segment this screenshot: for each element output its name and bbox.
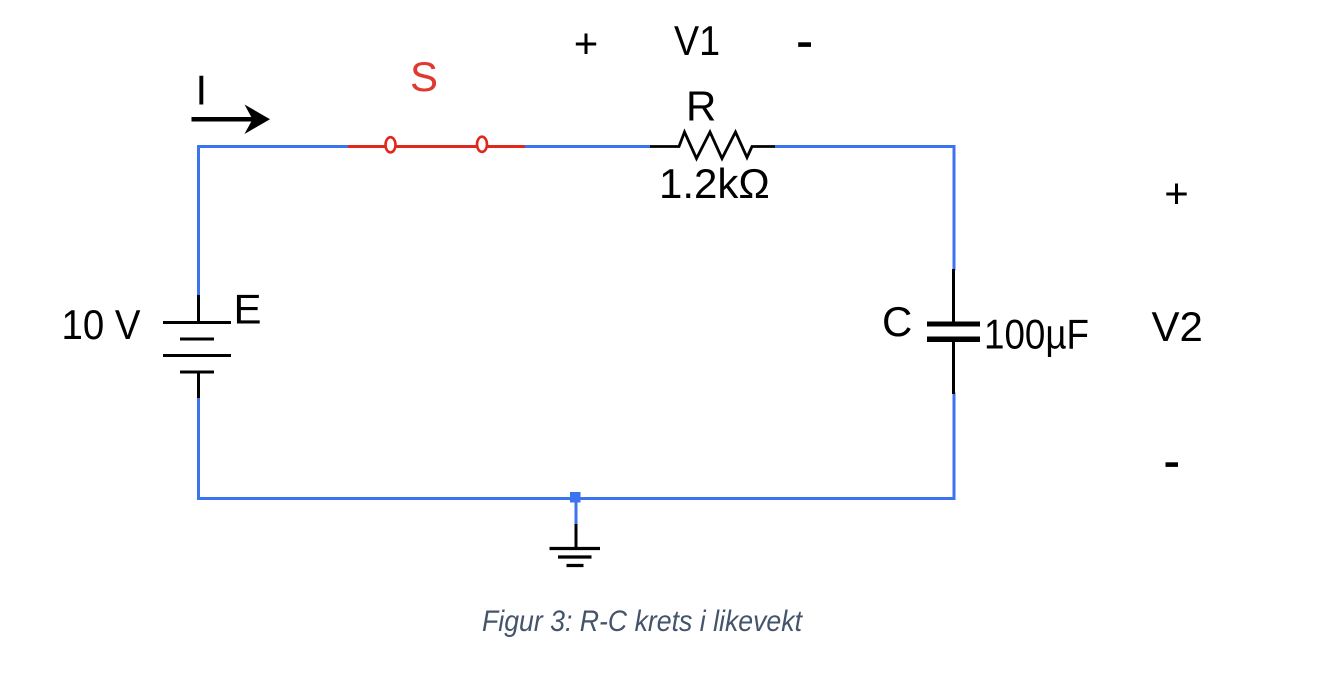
wire: right vertical (bottom part, capacitor to bottom-right corner): [953, 393, 956, 499]
label R: [686, 83, 716, 130]
label C: [882, 298, 912, 345]
battery E (two cells): [163, 295, 231, 398]
wire: ground stub (blue): [575, 499, 578, 526]
svg-text:Figur 3: R-C krets i likevekt: Figur 3: R-C krets i likevekt: [482, 605, 803, 638]
wire: top horizontal segment 2 (switch to resistor): [524, 145, 651, 148]
svg-text:I: I: [196, 67, 208, 114]
svg-text:C: C: [882, 298, 912, 345]
caption: Figur 3: R-C krets i likevekt: [482, 605, 803, 638]
label S (switch): [410, 53, 438, 100]
value label 100µF: [984, 311, 1089, 358]
wire: left vertical (bottom part, battery - to bottom-left corner): [197, 397, 200, 499]
label V2: [1152, 303, 1203, 350]
value label 10 V: [62, 301, 141, 348]
svg-text:+: +: [574, 20, 599, 67]
junction node (bottom wire to ground): [570, 492, 581, 503]
polarity + (V1 left): [574, 20, 599, 67]
current arrow I: [192, 105, 271, 135]
value label 1.2kΩ: [659, 160, 770, 207]
svg-text:S: S: [410, 53, 438, 100]
label I (current): [196, 67, 208, 114]
label E (battery): [234, 286, 262, 333]
svg-text:10 V: 10 V: [62, 301, 141, 348]
ground symbol: [550, 524, 601, 566]
svg-text:100µF: 100µF: [984, 311, 1089, 358]
svg-text:+: +: [1164, 170, 1189, 217]
polarity + (V2 top): [1164, 170, 1189, 217]
wire: top horizontal segment 3 (resistor to top-right corner): [775, 145, 956, 148]
polarity - (V1 right): [798, 42, 811, 47]
switch S (red, open, two terminals): [348, 137, 525, 153]
wire: bottom horizontal: [197, 497, 956, 500]
svg-text:1.2kΩ: 1.2kΩ: [659, 160, 770, 207]
svg-text:V2: V2: [1152, 303, 1203, 350]
svg-text:E: E: [234, 286, 262, 333]
wire: right vertical (top part, corner to capacitor): [953, 145, 956, 271]
svg-text:R: R: [686, 83, 716, 130]
polarity - (V2 bottom): [1166, 462, 1179, 467]
resistor R (zigzag with leads): [650, 132, 775, 159]
svg-text:V1: V1: [674, 17, 720, 64]
capacitor C (two plates with leads): [927, 269, 980, 394]
wire: left vertical (top part, battery + to top-left corner): [197, 147, 200, 297]
wire: top horizontal segment 1 (corner to switch): [197, 145, 349, 148]
label V1: [674, 17, 720, 64]
